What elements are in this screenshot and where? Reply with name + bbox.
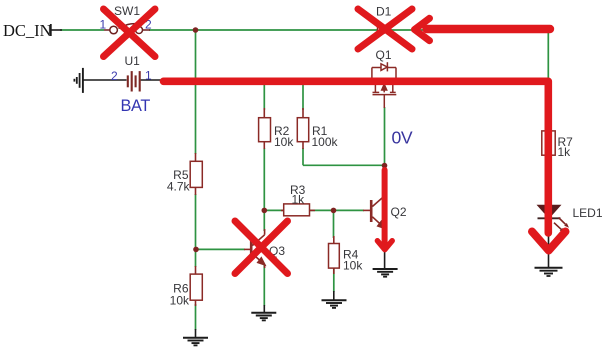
ground (below Q2) — [373, 269, 398, 277]
ground (below LED1) — [535, 268, 563, 276]
ground (below R6) — [183, 338, 208, 346]
wire: battery ground to battery — [83, 79, 127, 81]
svg-text:1k: 1k — [292, 193, 306, 207]
LED LED1 — [538, 206, 570, 233]
wire: rail down to R7 — [547, 80, 549, 131]
wire: Q1 gate down to gate node — [384, 107, 386, 165]
annotation: arrowhead into LED1 — [532, 232, 566, 251]
switch SW1 — [104, 24, 150, 34]
wire: R3 right to node B — [310, 209, 334, 211]
wire: node B down to R4 — [333, 210, 335, 238]
wire: R4 ground pin — [333, 291, 335, 300]
wire: node A down to Q3 collector — [263, 210, 265, 231]
annotation: red arrow pointing left at D1 — [427, 25, 551, 33]
diode D1 — [378, 23, 391, 37]
ground (below R4) — [322, 300, 347, 308]
ground (battery, rotated) — [74, 68, 83, 93]
svg-text:1: 1 — [145, 69, 152, 83]
svg-text:2: 2 — [111, 69, 118, 83]
wire: R5 bottom to node — [195, 194, 197, 249]
node: gate node junction — [382, 163, 388, 169]
wire: R5 node to Q3 base — [196, 248, 245, 250]
annotation: red X over Q3 — [235, 221, 288, 274]
wire: Q2 ground pin — [384, 250, 386, 269]
wire: SW1 pin 2 to node at x=195.5 — [149, 29, 196, 31]
svg-text:1k: 1k — [558, 145, 572, 159]
annotation: red X over D1 — [358, 9, 412, 49]
svg-text:Q2: Q2 — [391, 205, 407, 219]
resistor R6 — [190, 266, 202, 306]
wire: DC_IN to SW1 pin 1 — [60, 29, 104, 31]
wire: R4 bottom to ground — [333, 268, 335, 292]
node: R3/R4/Q2-base junction (node B) — [331, 208, 337, 214]
resistor R3 — [281, 204, 315, 216]
annotation: red X over SW1 — [104, 9, 156, 57]
wire: battery plus stub — [141, 79, 164, 81]
wire: R2 bottom to node A — [263, 148, 265, 210]
wire: vertical battery/R5 net crossing rail — [195, 30, 197, 154]
battery U1 — [128, 71, 140, 91]
svg-text:D1: D1 — [376, 5, 392, 19]
wire: D1 cathode to top-right corner — [391, 29, 548, 31]
node: SW1 output junction — [193, 27, 199, 33]
wire: LED1 ground pin — [548, 219, 550, 268]
ground (below Q3) — [251, 313, 276, 321]
transistor Q2 (NPN) — [363, 190, 385, 252]
wire: Q3 emitter to ground — [263, 264, 265, 306]
wire: R7 bottom to LED1 — [547, 155, 549, 206]
svg-text:10k: 10k — [343, 259, 363, 273]
wire: top-right corner down to VCC rail — [547, 30, 549, 80]
resistor R1 — [297, 108, 308, 149]
svg-text:SW1: SW1 — [114, 4, 140, 18]
wire: VCC rail under red overlay — [163, 79, 548, 81]
svg-text:10k: 10k — [170, 293, 190, 307]
wire: R6 bottom to ground — [195, 304, 197, 330]
svg-text:0V: 0V — [392, 128, 413, 148]
svg-text:BAT: BAT — [121, 97, 151, 115]
svg-text:Q1: Q1 — [376, 48, 392, 62]
node: R5/R6/Q3 junction — [193, 247, 199, 253]
wire: R6 ground pin — [195, 329, 197, 338]
wire: node down to R6 — [195, 249, 197, 267]
svg-text:U1: U1 — [125, 54, 141, 68]
wire: node to D1 anode — [196, 29, 378, 31]
svg-text:4.7k: 4.7k — [167, 179, 191, 193]
wire: across to gate node — [303, 164, 385, 166]
svg-text:1: 1 — [100, 18, 107, 32]
wire: rail down to R1 — [302, 80, 304, 110]
wire: R1 bottom down — [302, 148, 304, 165]
svg-text:DC_IN: DC_IN — [3, 21, 52, 40]
resistor R4 — [329, 236, 340, 274]
resistor R5 — [190, 153, 202, 195]
wire: DC_IN pin stub — [51, 29, 62, 31]
node: R2/R3/Q3 junction (node A) — [262, 208, 268, 214]
transistor Q3 (NPN) — [244, 229, 265, 268]
resistor R2 — [259, 108, 271, 149]
svg-text:100k: 100k — [312, 135, 339, 149]
resistor R7 — [542, 131, 555, 155]
svg-text:LED1: LED1 — [573, 206, 603, 220]
net label DC_IN — [3, 21, 52, 40]
wire: node A to R3 left — [264, 209, 283, 211]
wire: Q3 ground pin — [263, 305, 265, 313]
annotation: thick red current path from battery to LED1 — [164, 81, 549, 233]
svg-text:10k: 10k — [274, 135, 294, 149]
wire: gate node down to Q2 collector — [384, 165, 386, 196]
transistor Q1 (p-MOSFET with body diode) — [372, 62, 396, 108]
annotation: red arrow through Q2 to ground — [382, 170, 388, 248]
wire: rail down to R2 — [263, 80, 265, 110]
wire: node B to Q2 base — [334, 209, 365, 211]
